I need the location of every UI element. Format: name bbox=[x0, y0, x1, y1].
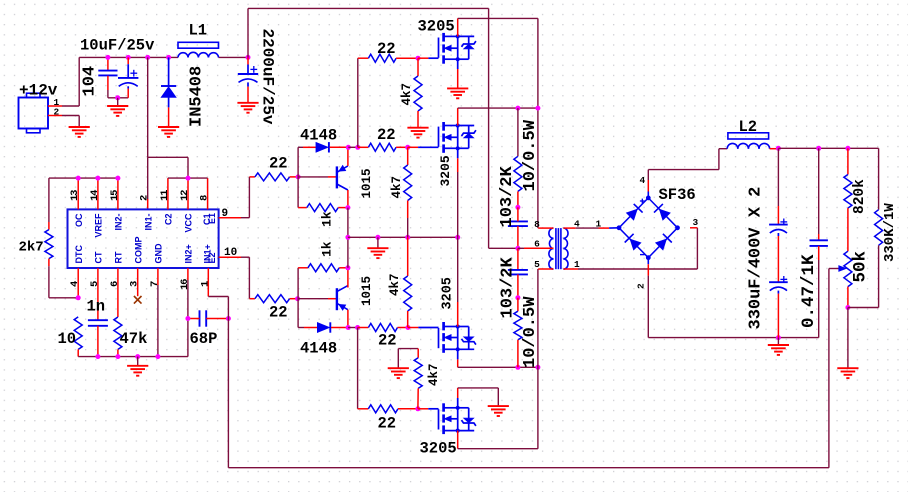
svg-text:10uF/25v: 10uF/25v bbox=[80, 37, 155, 55]
wire output + rail bbox=[776, 146, 781, 151]
svg-text:+12v: +12v bbox=[19, 82, 58, 100]
svg-text:6: 6 bbox=[534, 239, 540, 250]
svg-text:4k7: 4k7 bbox=[388, 273, 402, 296]
svg-text:103/2K: 103/2K bbox=[498, 165, 517, 227]
diode bridge D bottom-left bbox=[630, 239, 641, 250]
wire collector down bbox=[347, 190, 349, 208]
diode IN5408 bbox=[166, 55, 171, 60]
svg-text:22: 22 bbox=[378, 415, 397, 433]
svg-text:4: 4 bbox=[69, 281, 81, 287]
diode bridge D left-top bbox=[626, 209, 637, 220]
capacitor 68P bbox=[199, 310, 201, 326]
wire +12v to transformer center tap bbox=[247, 8, 249, 57]
wire +12v rail bbox=[79, 56, 178, 58]
resistor 1k lower bbox=[297, 268, 299, 299]
ground bbox=[158, 126, 179, 128]
wire pin1 bbox=[48, 105, 62, 107]
svg-text:COMP: COMP bbox=[133, 237, 143, 264]
ground bbox=[447, 87, 468, 89]
wire VREF rail left bbox=[49, 177, 118, 179]
svg-text:2200uF/25v: 2200uF/25v bbox=[259, 29, 277, 125]
resistor 2k7 bbox=[48, 178, 50, 222]
pin 6 lead center tap bbox=[518, 247, 524, 249]
svg-text:820k: 820k bbox=[852, 179, 868, 214]
capacitor 0.47/1K bbox=[818, 148, 820, 234]
resistor 4k7 (Q1) bbox=[417, 58, 419, 76]
node center tap bbox=[515, 246, 520, 251]
node A1 bbox=[296, 174, 301, 179]
node rail/104 bbox=[105, 55, 110, 60]
wire Q2 source bbox=[457, 148, 459, 158]
resistor 10/0.5W upper bbox=[517, 108, 519, 156]
node G3 bbox=[406, 325, 411, 330]
svg-text:15: 15 bbox=[109, 190, 121, 201]
pin 9 bbox=[219, 217, 241, 219]
wire Q1 source to ground bbox=[457, 59, 459, 69]
ground bbox=[407, 127, 428, 129]
svg-text:12: 12 bbox=[179, 190, 191, 201]
svg-text:1: 1 bbox=[596, 219, 602, 230]
ground bbox=[367, 247, 388, 249]
svg-text:10/0.5W: 10/0.5W bbox=[521, 119, 540, 191]
wire pin stubs bottom bbox=[77, 268, 79, 298]
ground bbox=[107, 105, 128, 107]
svg-text:8: 8 bbox=[199, 195, 211, 201]
svg-text:CT: CT bbox=[94, 251, 104, 263]
svg-text:E2: E2 bbox=[207, 252, 217, 263]
transistor Q5 1015 (upper PNP) bbox=[298, 176, 328, 178]
capacitor 103/2K lower bbox=[517, 248, 519, 270]
svg-text:L1: L1 bbox=[189, 22, 208, 40]
svg-text:1015: 1015 bbox=[360, 276, 374, 306]
capacitor 10uF/25v bbox=[126, 55, 131, 60]
potentiometer 50k bbox=[844, 251, 852, 286]
ground bbox=[127, 365, 148, 367]
svg-text:4k7: 4k7 bbox=[390, 176, 404, 199]
svg-text:68P: 68P bbox=[190, 330, 218, 348]
capacitor 1n bbox=[88, 319, 108, 321]
transistor Q6 1015 (lower PNP) bbox=[298, 298, 328, 300]
node cap gnd bbox=[115, 95, 120, 100]
wire to bottom gate bbox=[357, 328, 359, 409]
node B2 bbox=[345, 205, 350, 210]
svg-text:1015: 1015 bbox=[360, 168, 374, 198]
svg-text:13: 13 bbox=[69, 190, 81, 201]
wire pin1 feedback bbox=[208, 296, 228, 298]
wire emitter down bbox=[347, 310, 349, 328]
svg-text:3: 3 bbox=[129, 281, 141, 287]
svg-text:5: 5 bbox=[534, 259, 540, 270]
wire to top gate bbox=[357, 58, 359, 147]
wire Q3 drain rail bbox=[457, 349, 459, 359]
wire pin2 bbox=[48, 115, 62, 117]
svg-text:RT: RT bbox=[114, 251, 124, 263]
wire collector up bbox=[347, 268, 349, 288]
svg-text:5: 5 bbox=[89, 281, 101, 287]
capacitor 330uF/400V x2 bbox=[777, 148, 779, 206]
svg-text:3205: 3205 bbox=[418, 18, 455, 36]
wiper arrow bbox=[829, 268, 839, 270]
wire to pin2 IN1- bbox=[147, 157, 149, 199]
svg-text:E1: E1 bbox=[207, 213, 217, 224]
node B3 bbox=[345, 265, 350, 270]
svg-text:DTC: DTC bbox=[74, 245, 84, 264]
resistor 330K/1W bbox=[875, 210, 883, 246]
resistor 10/0.5W lower bbox=[517, 298, 519, 312]
svg-text:4: 4 bbox=[574, 219, 580, 230]
wire to bridge pin3 bbox=[696, 228, 698, 269]
svg-text:1: 1 bbox=[199, 281, 211, 287]
ground bbox=[768, 344, 789, 346]
wire pin9 to 22 bbox=[241, 217, 249, 219]
svg-text:11: 11 bbox=[159, 190, 171, 201]
pin 8 lead bbox=[538, 227, 553, 229]
svg-text:2k7: 2k7 bbox=[19, 240, 44, 256]
svg-text:GND: GND bbox=[154, 243, 164, 264]
wire Q1 drain bbox=[457, 18, 459, 36]
node G4 bbox=[415, 406, 420, 411]
node G2 bbox=[405, 145, 410, 150]
svg-text:IN2+: IN2+ bbox=[184, 244, 194, 263]
svg-text:104: 104 bbox=[81, 66, 100, 97]
svg-text:3205: 3205 bbox=[438, 155, 453, 186]
bridge + mark bbox=[640, 200, 645, 202]
svg-text:6: 6 bbox=[109, 281, 121, 287]
svg-text:SF36: SF36 bbox=[659, 186, 696, 204]
svg-text:3205: 3205 bbox=[420, 440, 457, 458]
svg-text:1: 1 bbox=[574, 259, 580, 270]
svg-text:IN1-: IN1- bbox=[143, 214, 153, 231]
svg-text:14: 14 bbox=[89, 190, 101, 201]
ground bbox=[69, 126, 90, 128]
connector J1 +12v bbox=[19, 98, 49, 129]
wire Q2 drain rail bbox=[457, 108, 459, 125]
svg-text:IN5408: IN5408 bbox=[187, 66, 206, 127]
resistor 22 (pin9) bbox=[255, 173, 290, 181]
wire VCC rail right bbox=[168, 177, 208, 179]
svg-text:10: 10 bbox=[58, 330, 77, 348]
resistor 22 (Q3 gate) bbox=[358, 327, 369, 329]
resistor 22 (Q1 gate) bbox=[368, 54, 396, 62]
capacitor 103/2K upper bbox=[508, 220, 528, 222]
svg-text:1k: 1k bbox=[320, 241, 335, 257]
secondary bottom lead pin1 bbox=[563, 268, 578, 270]
ground bbox=[488, 405, 509, 407]
wire cap bottoms bbox=[108, 97, 128, 99]
svg-text:9: 9 bbox=[222, 208, 229, 220]
node DTC bbox=[76, 295, 81, 300]
svg-text:330uF/400V X 2: 330uF/400V X 2 bbox=[746, 187, 765, 330]
svg-text:1n: 1n bbox=[87, 298, 106, 316]
svg-text:4k7: 4k7 bbox=[400, 83, 414, 106]
svg-text:8: 8 bbox=[534, 219, 540, 230]
ground bbox=[837, 367, 858, 369]
resistor 4k7 (Q4) bbox=[398, 348, 418, 350]
svg-text:1k: 1k bbox=[320, 211, 335, 227]
resistor 22 (pin10) bbox=[255, 295, 290, 303]
pin 10 bbox=[219, 256, 241, 258]
svg-text:22: 22 bbox=[377, 126, 396, 144]
resistor 10 bbox=[74, 317, 82, 350]
svg-text:103/2K: 103/2K bbox=[498, 256, 517, 318]
wire feedback bottom rail bbox=[228, 467, 829, 469]
svg-text:4: 4 bbox=[640, 175, 646, 186]
svg-text:OC: OC bbox=[74, 213, 84, 227]
svg-text:22: 22 bbox=[377, 40, 396, 58]
wire gnd rail bottom-left bbox=[78, 356, 188, 358]
wire negative rail bbox=[648, 337, 818, 339]
resistor 1k upper bbox=[297, 177, 299, 208]
svg-text:330K/1W: 330K/1W bbox=[882, 203, 898, 262]
svg-text:2: 2 bbox=[139, 195, 151, 201]
wire bridge pin2 down bbox=[647, 258, 649, 265]
wire Q4 drain U bbox=[457, 431, 459, 449]
svg-text:0.47/1K: 0.47/1K bbox=[799, 254, 819, 328]
resistor 22 (Q2 gate) bbox=[358, 146, 369, 148]
wire collector ground rail bbox=[347, 208, 349, 268]
capacitor 104 bbox=[107, 57, 109, 70]
wire VCC feed bbox=[145, 55, 150, 60]
resistor 4k7 (Q2) bbox=[407, 147, 409, 165]
svg-text:10/0.5W: 10/0.5W bbox=[521, 296, 540, 368]
wire pin10 to 22 bbox=[241, 256, 249, 258]
capacitor 2200uF/25v bbox=[246, 55, 251, 60]
resistor 820k bbox=[847, 148, 849, 174]
svg-text:7: 7 bbox=[149, 281, 161, 287]
svg-text:VREF: VREF bbox=[94, 213, 104, 238]
op-amp U1 TL494 bbox=[68, 209, 219, 268]
wire Q3 top to gnd rail bbox=[457, 237, 459, 302]
wire pot bottom bbox=[847, 287, 849, 308]
no-connect X pin3 bbox=[134, 296, 142, 304]
pin 5 lead bbox=[538, 268, 553, 270]
node B1 bbox=[295, 296, 300, 301]
svg-text:3: 3 bbox=[693, 217, 699, 228]
ground bbox=[388, 367, 409, 369]
svg-text:2: 2 bbox=[636, 283, 647, 289]
node E2 bbox=[346, 325, 351, 330]
svg-text:22: 22 bbox=[269, 304, 288, 322]
wire Q4 top to ground bbox=[457, 398, 459, 408]
svg-text:22: 22 bbox=[378, 332, 397, 350]
svg-text:16: 16 bbox=[179, 279, 191, 290]
svg-text:C2: C2 bbox=[164, 214, 174, 226]
svg-text:4k7: 4k7 bbox=[427, 363, 441, 386]
ground bbox=[237, 102, 258, 104]
wire bridge pin4 up bbox=[647, 192, 649, 198]
svg-text:22: 22 bbox=[269, 155, 288, 173]
bridge - mark bbox=[640, 254, 645, 256]
node G1 bbox=[416, 56, 421, 61]
node pot bbox=[845, 305, 850, 310]
svg-text:VCC: VCC bbox=[184, 213, 194, 233]
svg-text:4148: 4148 bbox=[300, 127, 337, 145]
transformer T1 bbox=[555, 228, 557, 269]
svg-text:50k: 50k bbox=[851, 251, 871, 283]
resistor 47k bbox=[114, 317, 122, 349]
node E1 bbox=[346, 145, 351, 150]
diode bridge D bottom-right bbox=[656, 239, 667, 250]
secondary top lead pin4 bbox=[563, 227, 575, 229]
svg-text:3205: 3205 bbox=[441, 277, 456, 309]
resistor 22 (Q4 gate) bbox=[368, 405, 398, 413]
svg-text:IN2-: IN2- bbox=[114, 214, 124, 231]
svg-text:47k: 47k bbox=[120, 330, 148, 348]
diode bridge D right-top bbox=[659, 209, 670, 220]
svg-text:4148: 4148 bbox=[300, 340, 337, 358]
resistor 4k7 (Q3) bbox=[407, 237, 409, 276]
svg-text:10: 10 bbox=[224, 247, 237, 259]
wire emitter up bbox=[347, 147, 349, 166]
